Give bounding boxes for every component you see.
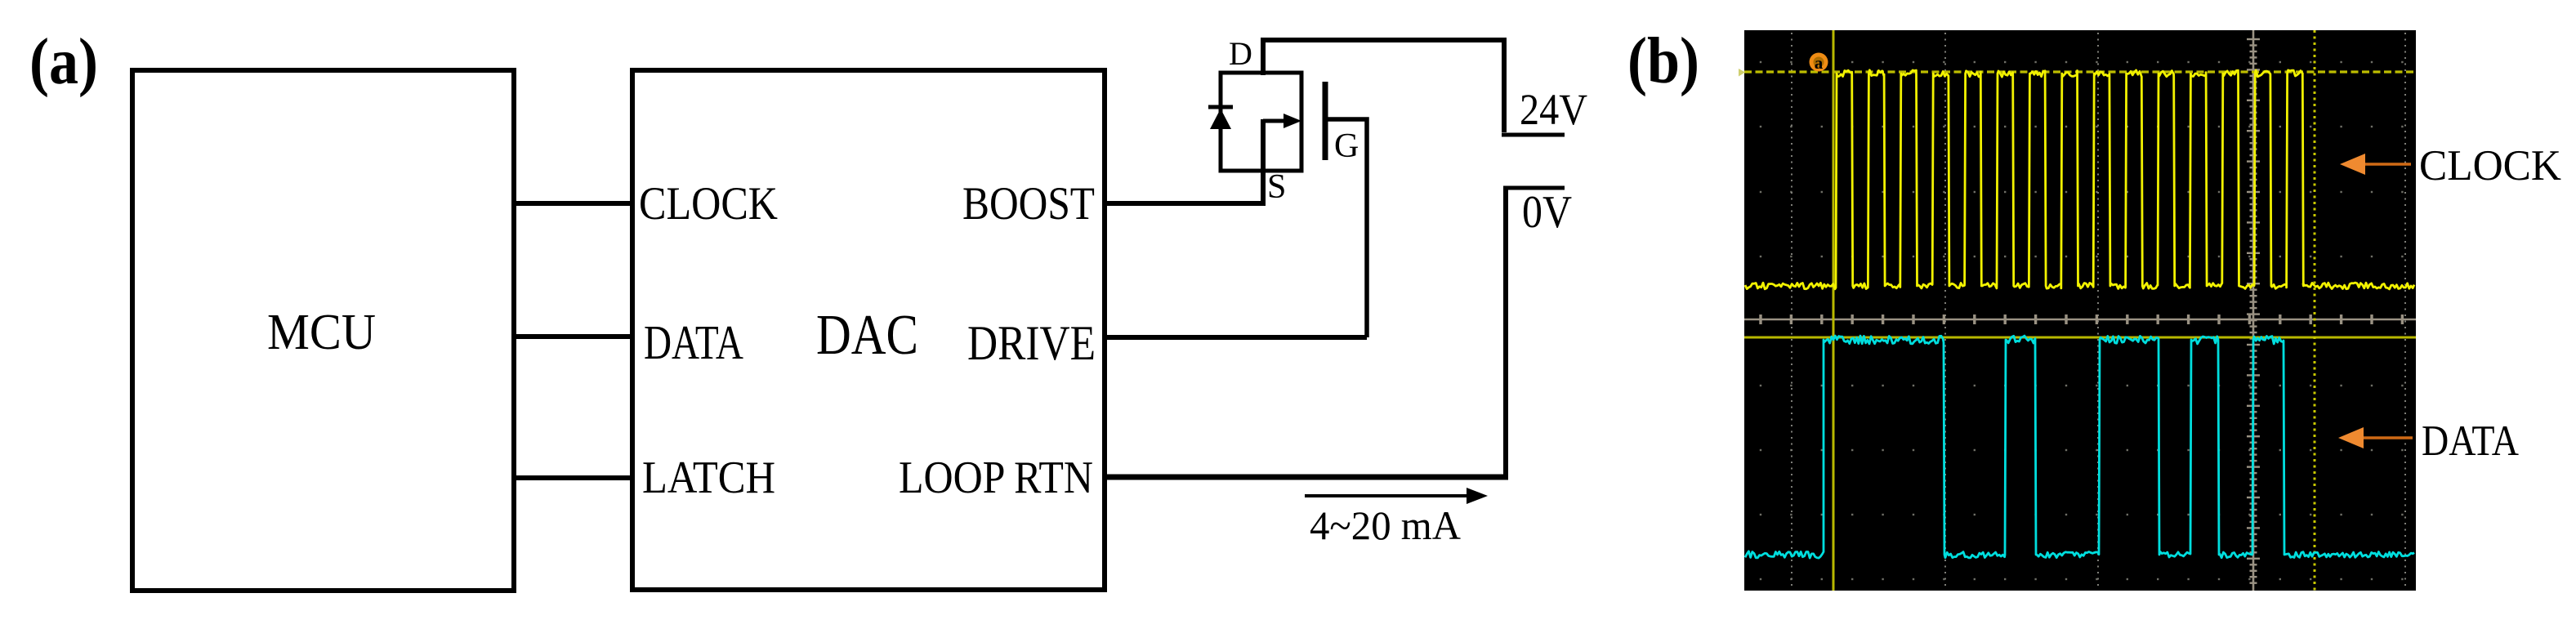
DAC block U2 [632, 70, 1105, 590]
svg-text:4~20 mA: 4~20 mA [1310, 502, 1461, 548]
solid yellow level line (data top) [1744, 337, 2416, 339]
dashed yellow reference line (clock top level) [1744, 70, 2416, 73]
wire BOOST (DAC to MOSFET source) [1102, 201, 1266, 206]
wire CLOCK (MCU to DAC) [511, 201, 635, 206]
svg-text:G: G [1334, 127, 1359, 165]
wire gate to DRIVE [1328, 119, 1367, 337]
wire LATCH (MCU to DAC) [511, 475, 635, 480]
svg-text:CLOCK: CLOCK [639, 178, 778, 230]
dotted yellow cursor line [2314, 30, 2316, 591]
svg-text:DATA: DATA [2422, 417, 2519, 465]
svg-text:(a): (a) [29, 26, 98, 98]
24V supply terminal [1502, 133, 1565, 137]
oscilloscope screen background [1744, 30, 2416, 591]
0V return terminal [1503, 186, 1565, 190]
svg-text:D: D [1229, 35, 1252, 72]
wire DATA (MCU to DAC) [511, 334, 635, 339]
gate electrode bar of Q1 [1323, 82, 1328, 160]
svg-text:(b): (b) [1627, 25, 1699, 97]
svg-text:LOOP RTN: LOOP RTN [899, 453, 1093, 503]
svg-text:LATCH: LATCH [642, 453, 775, 503]
dotted vertical gridlines [1791, 33, 1792, 589]
current direction arrow 4-20 mA [1305, 494, 1471, 497]
svg-text:BOOST: BOOST [962, 178, 1095, 230]
svg-text:S: S [1267, 168, 1286, 206]
svg-text:24V: 24V [1520, 85, 1587, 134]
DATA waveform trace [1745, 336, 2414, 558]
svg-text:0V: 0V [1522, 187, 1572, 238]
svg-text:DAC: DAC [816, 304, 918, 367]
wire drain to 24V supply [1263, 40, 1504, 132]
svg-text:DATA: DATA [644, 315, 743, 369]
wire LOOP RTN (DAC to 0V terminal) [1102, 475, 1508, 480]
graticule dots [1760, 61, 1761, 63]
body diode of Q1 [1208, 105, 1233, 109]
svg-text:DRIVE: DRIVE [967, 316, 1096, 370]
trigger level marker at left edge [1739, 69, 1745, 77]
CLOCK pointer arrow [2359, 163, 2411, 165]
solid yellow trigger time cursor [1833, 30, 1835, 591]
transistor Q1 body box [1221, 73, 1301, 171]
CLOCK waveform trace [1745, 70, 2414, 289]
wire 0V to LOOP RTN [1503, 186, 1508, 479]
svg-text:MCU: MCU [267, 305, 376, 360]
svg-text:a: a [1815, 53, 1824, 73]
channel arrow of Q1 [1263, 119, 1289, 123]
wire DRIVE (DAC to MOSFET gate) [1102, 335, 1367, 340]
vertical center ruler [2252, 30, 2255, 591]
MCU block U1 [132, 70, 514, 591]
horizontal center ruler [1744, 319, 2416, 321]
trigger marker a [1810, 53, 1828, 72]
wire source lead [1261, 119, 1266, 206]
svg-text:CLOCK: CLOCK [2419, 142, 2561, 190]
DATA pointer arrow [2358, 436, 2413, 439]
